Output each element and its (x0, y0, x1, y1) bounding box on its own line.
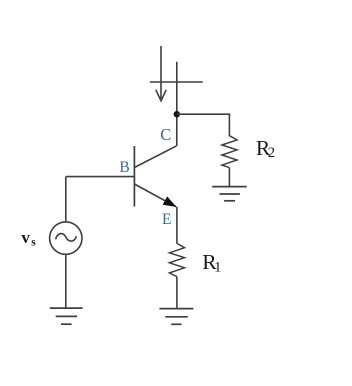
svg-text:E: E (162, 211, 171, 228)
wire source to ground (65, 254, 67, 308)
label vs (21, 228, 36, 248)
transistor Q1 emitter arrowhead (163, 196, 177, 207)
label R2 (256, 136, 275, 161)
label R1 (202, 250, 221, 275)
resistor R1 (169, 243, 184, 276)
supply horizontal line (150, 81, 203, 83)
current arrow (156, 46, 166, 101)
transistor Q1 emitter stroke (134, 184, 176, 207)
wire R1 to ground (176, 277, 178, 309)
wire R2 to ground (228, 168, 230, 187)
wire base corner down to source (65, 177, 67, 222)
wire node to R2 (177, 114, 230, 136)
svg-text:v: v (21, 228, 30, 247)
svg-text:2: 2 (268, 145, 276, 161)
ground R2 (212, 187, 247, 201)
node collector junction (174, 111, 180, 117)
wire base lead (66, 176, 135, 178)
wire collector feed (176, 62, 178, 146)
source vs (50, 222, 82, 254)
svg-text:B: B (119, 159, 129, 176)
transistor Q1 collector stroke (134, 146, 176, 168)
svg-text:s: s (31, 237, 36, 249)
ground source (50, 308, 83, 324)
ground R1 (159, 309, 193, 325)
transistor Q1 base bar (133, 146, 135, 207)
resistor R2 (222, 136, 237, 168)
svg-text:1: 1 (214, 259, 222, 275)
wire emitter to R1 (176, 207, 178, 244)
svg-text:C: C (160, 125, 171, 144)
